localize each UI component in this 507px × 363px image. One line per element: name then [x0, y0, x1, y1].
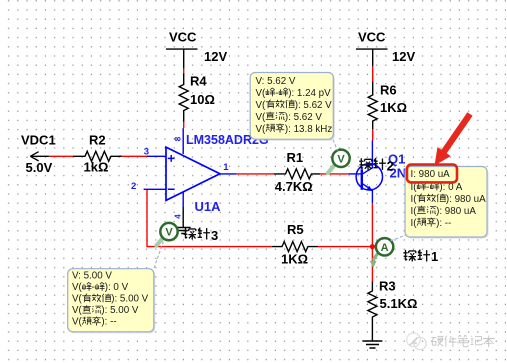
svg-text:V(: V(: [256, 88, 267, 99]
svg-text:I(: I(: [411, 218, 418, 229]
svg-text:-: -: [92, 282, 95, 293]
svg-text:5.0V: 5.0V: [26, 160, 53, 175]
svg-text:V(: V(: [256, 100, 267, 111]
svg-text:I(: I(: [411, 206, 418, 217]
svg-text:3: 3: [211, 228, 218, 243]
svg-text:2: 2: [387, 159, 394, 174]
svg-text:10Ω: 10Ω: [190, 92, 215, 107]
svg-text:4: 4: [173, 214, 182, 219]
svg-text:5.1KΩ: 5.1KΩ: [380, 296, 418, 311]
svg-text:A: A: [381, 242, 389, 254]
svg-text:): 5.00 V: ): 5.00 V: [101, 305, 138, 316]
svg-text:R4: R4: [190, 73, 207, 88]
svg-text:): --: ): --: [436, 218, 451, 229]
svg-text:): 0 V: ): 0 V: [105, 282, 129, 293]
svg-text:U1A: U1A: [195, 199, 222, 214]
svg-text:1KΩ: 1KΩ: [281, 251, 308, 266]
svg-text:8: 8: [174, 136, 183, 141]
svg-text:V(: V(: [72, 305, 83, 316]
svg-text:V: 5.62 V: V: 5.62 V: [256, 76, 296, 87]
svg-text:1: 1: [223, 162, 229, 173]
svg-text:V(: V(: [256, 124, 267, 135]
svg-text:V: V: [165, 227, 173, 239]
svg-text:V: 5.00 V: V: 5.00 V: [72, 271, 112, 282]
svg-text:12V: 12V: [392, 49, 415, 64]
svg-text:): 5.00 V: ): 5.00 V: [111, 294, 148, 305]
svg-text:V(: V(: [72, 282, 83, 293]
svg-text:): 980 uA: ): 980 uA: [436, 206, 476, 217]
svg-text:R2: R2: [89, 133, 106, 148]
svg-text:VCC: VCC: [358, 30, 386, 45]
svg-text:1: 1: [431, 249, 438, 264]
svg-text:V(: V(: [72, 317, 83, 328]
svg-text:): --: ): --: [101, 317, 116, 328]
svg-text:1kΩ: 1kΩ: [84, 160, 109, 175]
svg-text:12V: 12V: [204, 49, 227, 64]
svg-text:R6: R6: [380, 82, 397, 97]
svg-text:2: 2: [131, 181, 136, 192]
svg-text:3: 3: [144, 147, 149, 158]
svg-text:VCC: VCC: [169, 30, 197, 45]
svg-text:R3: R3: [379, 279, 396, 294]
svg-text:): 1.24 pV: ): 1.24 pV: [288, 88, 331, 99]
svg-text:): 980 uA: ): 980 uA: [446, 194, 486, 205]
svg-text:): 5.62 V: ): 5.62 V: [285, 112, 322, 123]
svg-text:I(: I(: [411, 194, 418, 205]
svg-text:): 13.8 kHz: ): 13.8 kHz: [285, 124, 332, 135]
svg-text:): 5.62 V: ): 5.62 V: [295, 100, 332, 111]
svg-text:4.7KΩ: 4.7KΩ: [275, 179, 313, 194]
svg-text:V(: V(: [256, 112, 267, 123]
svg-text:R5: R5: [287, 222, 304, 237]
svg-text:R1: R1: [287, 150, 304, 165]
svg-text:1KΩ: 1KΩ: [380, 100, 407, 115]
svg-text:V(: V(: [72, 294, 83, 305]
svg-text:VDC1: VDC1: [21, 133, 56, 148]
svg-text:-: -: [275, 88, 278, 99]
svg-text:I: 980 uA: I: 980 uA: [411, 169, 451, 180]
svg-text:V: V: [337, 153, 345, 165]
